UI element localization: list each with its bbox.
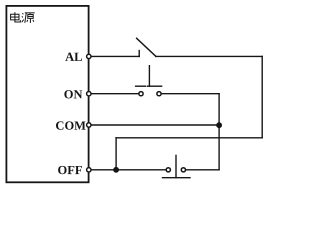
- button SB1 left contact: [139, 92, 143, 96]
- terminal OFF: [87, 168, 91, 172]
- button SB1 bridge bar left: [136, 85, 146, 87]
- wire SB2 to right drop: [186, 169, 219, 171]
- button SB2 stem: [175, 155, 177, 177]
- glyph 源: [21, 13, 24, 14]
- terminal ON: [87, 92, 91, 96]
- wire ON terminal to button SB1: [91, 93, 139, 95]
- wire OFF terminal to button SB2: [91, 169, 166, 171]
- wire right rail vertical: [261, 56, 263, 137]
- switch S1 fixed contact tick: [138, 51, 140, 57]
- button SB1 right contact: [157, 92, 161, 96]
- terminal AL: [87, 54, 91, 58]
- button SB2 right contact: [181, 168, 185, 172]
- wire COM terminal to node: [91, 124, 220, 126]
- wire ON branch vertical: [218, 94, 220, 170]
- wire AL terminal to switch: [91, 55, 140, 57]
- power supply box: [6, 6, 88, 182]
- node junction on OFF line: [113, 167, 119, 173]
- svg-text:COM: COM: [55, 119, 86, 133]
- wire SB1 to vertical: [162, 93, 219, 95]
- wire switch to right rail: [156, 55, 263, 57]
- button SB1 bridge bar right: [148, 85, 162, 87]
- switch S1 blade (AL contact): [137, 38, 156, 56]
- button SB2 bridge bar: [163, 177, 191, 179]
- svg-text:AL: AL: [65, 50, 82, 64]
- button SB1 stem: [148, 66, 150, 87]
- svg-text:OFF: OFF: [57, 163, 82, 177]
- node junction on COM line: [216, 122, 222, 128]
- label 电源 (drawn glyphs): [11, 12, 35, 23]
- wire drop to OFF line: [115, 138, 117, 170]
- wire mid horizontal return: [116, 137, 262, 139]
- glyph 电: [14, 12, 16, 20]
- terminal COM: [87, 123, 91, 127]
- button SB2 left contact: [166, 168, 170, 172]
- svg-text:ON: ON: [64, 87, 83, 101]
